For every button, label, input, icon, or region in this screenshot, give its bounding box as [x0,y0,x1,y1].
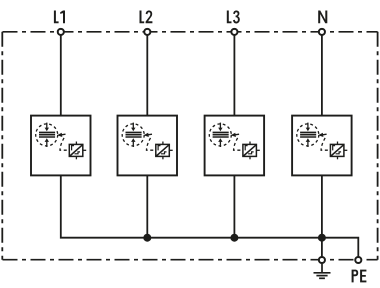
mechanical linkage L2: dashed curve to disconnector [147,138,156,150]
spark gap N: bottom arrow [306,138,310,147]
spark gap L1: bottom arrow [45,138,49,147]
disconnector L1: diagonal [70,145,83,156]
mechanical linkage L1: dashed curve to disconnector [60,138,69,150]
disconnector N: stubs [338,142,348,160]
spark gap N: trigger arrow from right [318,133,327,137]
disconnector N: square body [330,144,344,156]
enclosure border: bottom dash-dot line [3,259,378,261]
spark gap L2: bottom arrow [131,138,135,147]
disconnector L1: stubs [76,142,86,160]
wire: L3 module down to PE bus [233,175,235,238]
spark gap L1: top arrow [45,123,49,132]
terminal circle L2 [144,29,150,35]
disconnector L3: square body [243,144,257,156]
label PE [352,270,367,283]
spark gap L2: electrode stack [126,132,142,137]
wire: PE bus L3 to N [234,237,322,239]
disconnector L3: lower contact mark [248,152,254,154]
label L2 [140,11,153,24]
junction dot at L3/PE bus [230,234,238,242]
disconnector L3: diagonal [243,145,256,156]
wire: N module down to ground terminal [321,175,323,258]
disconnector L1: lower contact mark [75,152,81,154]
enclosure border: right dash-dot line [377,32,379,260]
wire: L3 terminal down to module [233,33,235,116]
enclosure border: top dash-dot line [3,31,378,33]
spark gap L3: top arrow [218,123,222,132]
spark gap N: top arrow [306,123,310,132]
spark gap L1: electrode stack [39,132,55,137]
terminal circle L3 [231,29,237,35]
spark gap L2: top arrow [131,123,135,132]
spark gap N: electrode stack [300,132,316,137]
disconnector L1: square body [69,144,83,156]
terminal circle N [319,29,325,35]
wire: N terminal down to module [321,33,323,116]
disconnector L2: diagonal [156,145,169,156]
spark gap L2: dashed circle [122,124,144,146]
mechanical linkage N: dashed curve to disconnector [321,138,330,150]
disconnector N: lower contact mark [336,152,342,154]
junction dot at L2/PE bus [143,234,151,242]
disconnector L3: upper contact mark [245,146,247,151]
spark gap L3: dashed circle [209,124,231,146]
wire: L2 terminal down to module [146,33,148,116]
spark gap L1: dashed circle [36,124,58,146]
disconnector L2: upper contact mark [158,146,160,151]
enclosure border: left dash-dot line [1,32,3,260]
terminal circle at ground tap [319,257,325,263]
junction dot at N/PE bus [318,234,326,242]
disconnector L2: stubs [163,142,173,160]
terminal circle L1 [58,29,64,35]
terminal circle PE [355,257,361,263]
spark gap N: dashed circle [297,124,319,146]
wire: L2 module down to PE bus [146,175,148,238]
ground symbol [314,264,331,279]
label N [318,11,327,24]
disconnector L2: lower contact mark [161,152,167,154]
disconnector L2: square body [156,144,170,156]
wire: PE bus elbow to PE terminal [322,238,358,258]
surge arrester module N: box outline [292,116,352,176]
mechanical linkage L3: dashed curve to disconnector [234,138,243,150]
surge arrester module L2: box outline [118,116,178,176]
disconnector L1: upper contact mark [72,146,74,151]
spark gap L2: trigger arrow from right [144,133,153,137]
disconnector L3: stubs [250,142,260,160]
spark gap L1: trigger arrow from right [57,133,66,137]
wire: L1 terminal down to module [60,33,62,116]
disconnector N: upper contact mark [333,146,335,151]
spark gap L3: bottom arrow [218,138,222,147]
wire: L1 module down to PE bus elbow [61,175,148,238]
label L3 [227,11,240,24]
wire: PE bus L2 to L3 [147,237,234,239]
spark gap L3: trigger arrow from right [231,133,240,137]
surge arrester module L1: box outline [31,116,91,176]
surge arrester module L3: box outline [205,116,265,176]
label L1 [54,11,65,24]
disconnector N: diagonal [331,145,344,156]
spark gap L3: electrode stack [213,132,229,137]
